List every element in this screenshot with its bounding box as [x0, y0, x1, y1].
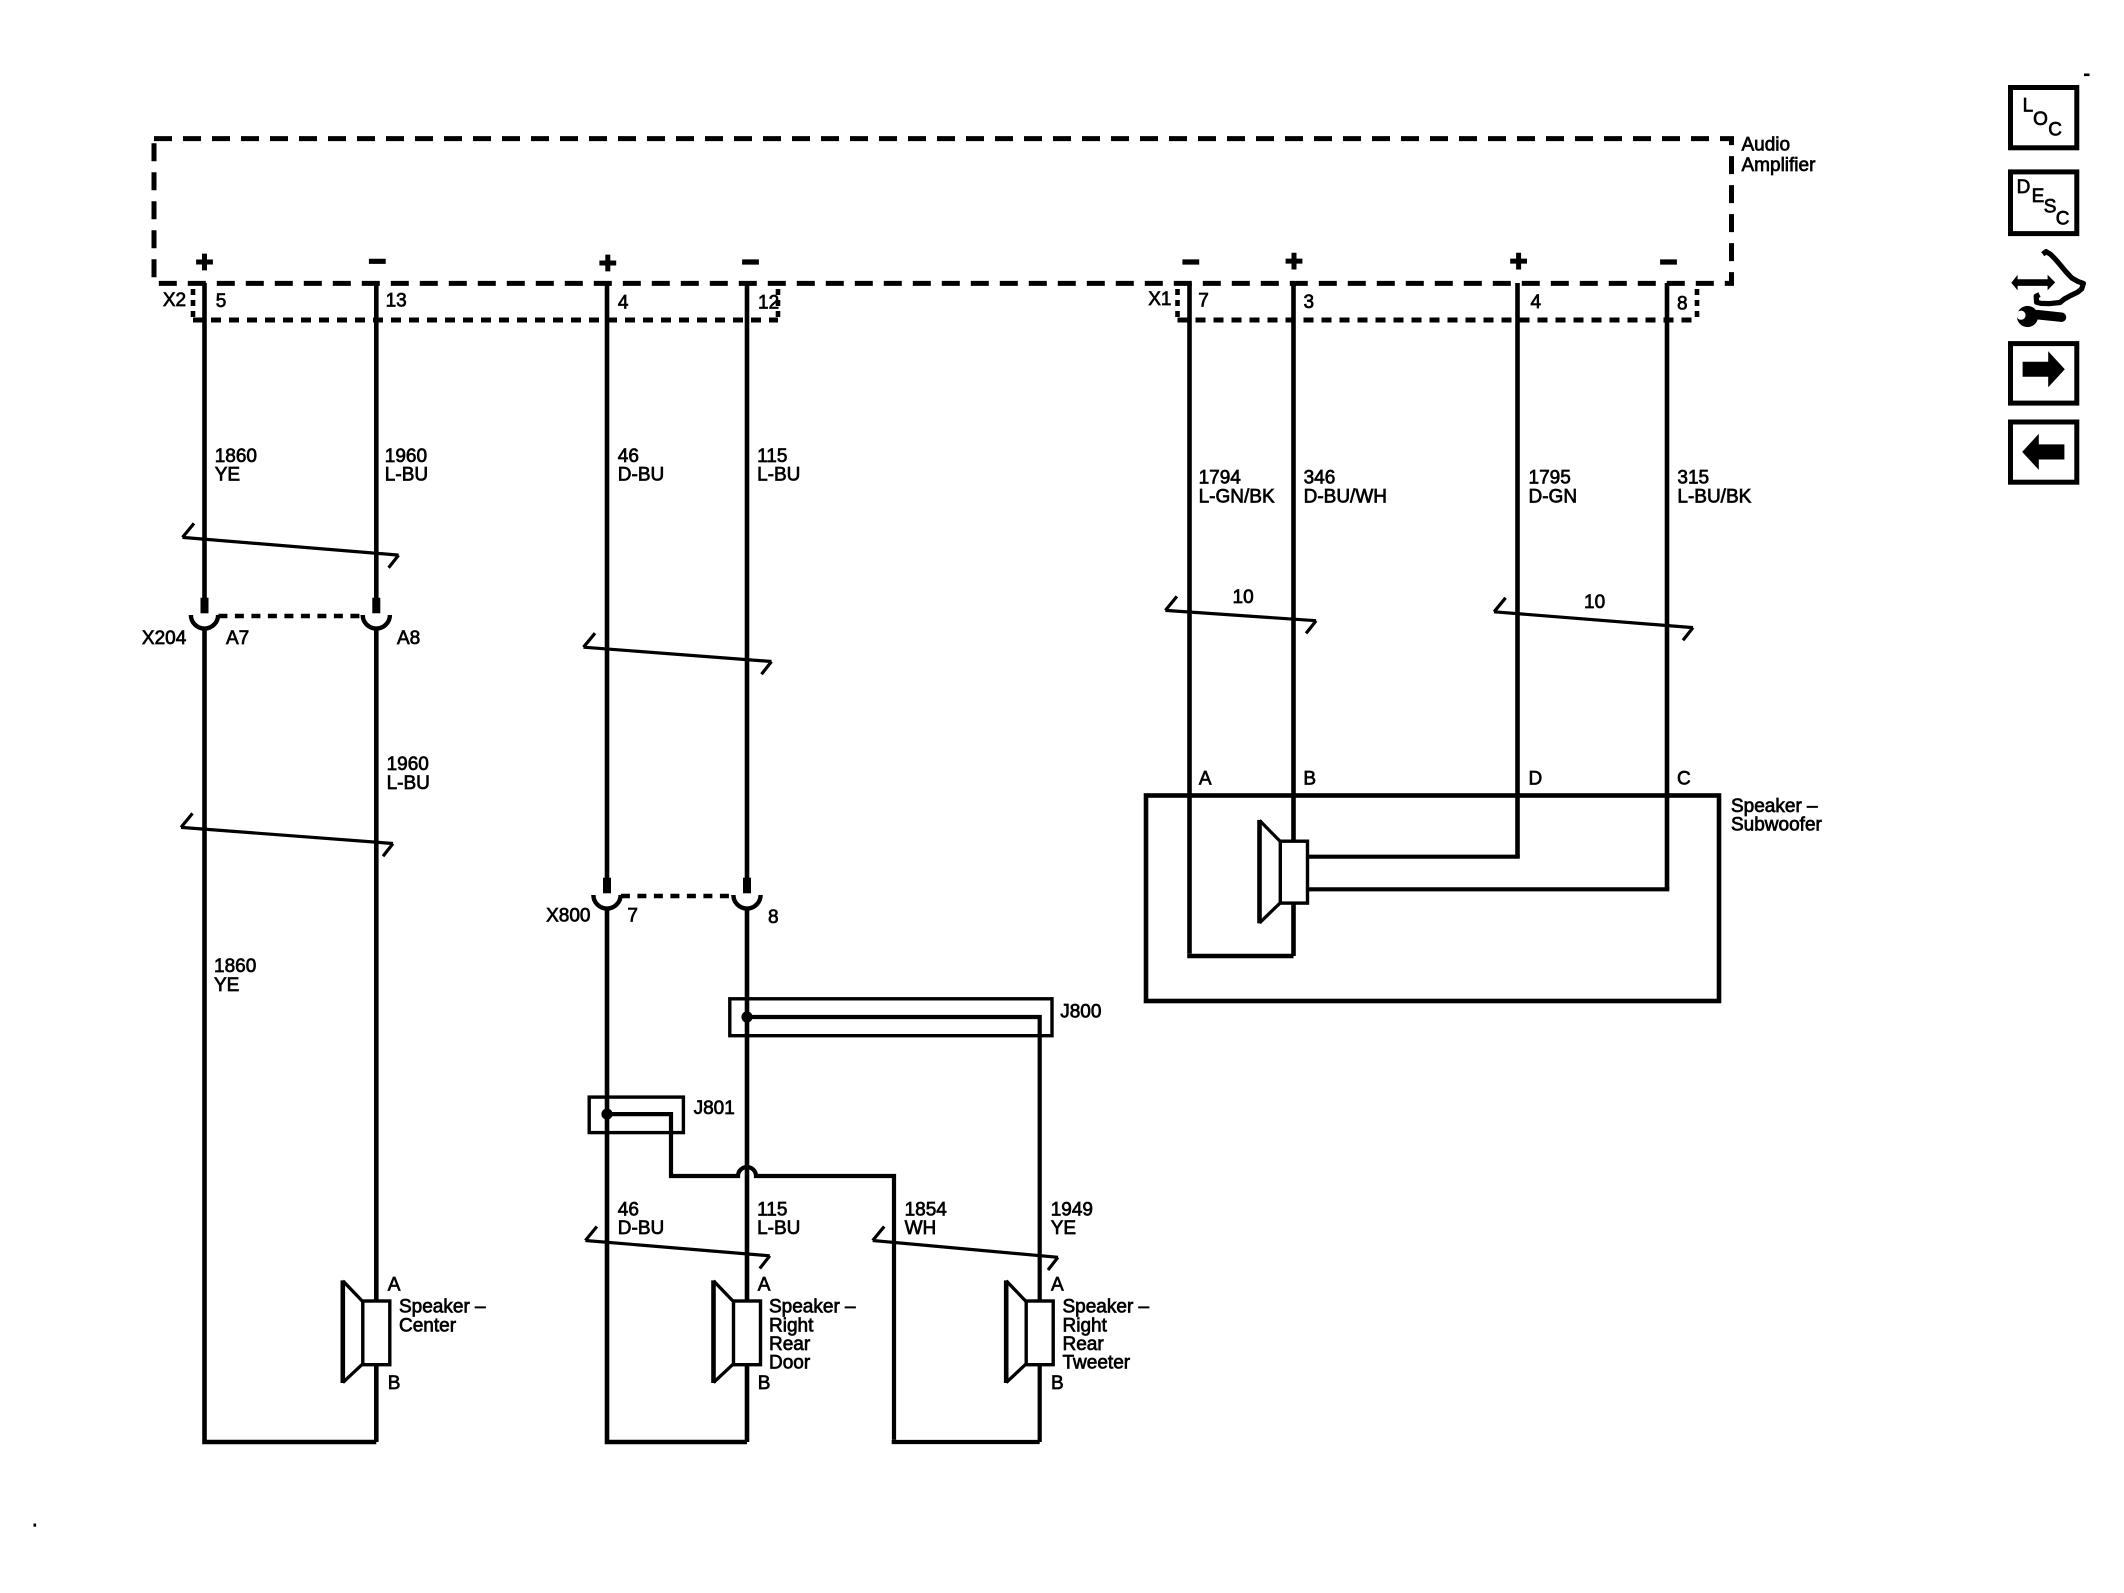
svg-text:4: 4: [618, 292, 629, 313]
Speaker-Center terminal A: [388, 1275, 401, 1296]
wire Subwoofer driver to terminal D: [1308, 855, 1520, 859]
wire 346 D-BU/WH (X1 pin3 to Subwoofer B / driver): [1291, 283, 1296, 956]
svg-text:X800: X800: [546, 906, 590, 927]
polarity - at X2 pin 13: [369, 259, 386, 264]
svg-text:L-BU: L-BU: [757, 1218, 800, 1239]
svg-text:J801: J801: [694, 1098, 735, 1119]
wire label 1960 L-BU: [385, 446, 428, 486]
wire Speaker-Right-Rear-Door B lead: [745, 1365, 750, 1442]
wire 115 L-BU (X2 pin12 to X800 pin8): [745, 283, 750, 893]
svg-text:8: 8: [1677, 294, 1688, 315]
X2 pin 12: [758, 292, 779, 313]
svg-text:7: 7: [627, 906, 638, 927]
polarity - at X1 pin 7: [1182, 259, 1199, 264]
option arrow across wires 46/115 (upper): [584, 633, 772, 674]
X2 pin 4: [618, 292, 629, 313]
svg-text:L-BU: L-BU: [385, 465, 428, 486]
svg-text:B: B: [1051, 1373, 1064, 1394]
icon button DESC: [2011, 172, 2077, 234]
icon button LOC: [2011, 88, 2077, 148]
svg-text:4: 4: [1531, 292, 1542, 313]
option arrow across wires 1860/1960 (upper): [183, 523, 399, 567]
Speaker-Right-Rear-Door terminal A: [758, 1275, 771, 1296]
page mark bottom left: [34, 1524, 37, 1527]
wire label 1794 L-GN/BK: [1199, 468, 1275, 508]
wire label 1960 L-BU (lower): [387, 754, 430, 794]
speaker Speaker-Right-Rear-Door symbol: [714, 1280, 761, 1383]
label Speaker-Right-Rear-Door: [769, 1297, 856, 1374]
svg-text:1794: 1794: [1199, 468, 1242, 489]
splice J801 box: [589, 1097, 683, 1133]
Audio Amplifier box (dashed): [154, 139, 1732, 284]
svg-text:1795: 1795: [1529, 468, 1571, 489]
connector X204 cavity A8: [363, 598, 390, 629]
label X800 pin 8: [768, 907, 779, 928]
svg-text:B: B: [388, 1373, 401, 1394]
svg-text:A: A: [758, 1275, 771, 1296]
connector X800 cavity 7: [593, 878, 620, 909]
svg-text:L: L: [2023, 96, 2034, 117]
connector X204 link (dashed): [218, 614, 362, 618]
Subwoofer terminal B: [1303, 769, 1316, 790]
splice J800 box: [730, 999, 1052, 1036]
svg-text:5: 5: [216, 291, 227, 312]
svg-text:L-GN/BK: L-GN/BK: [1199, 487, 1275, 508]
speaker Speaker-Subwoofer driver symbol: [1260, 820, 1308, 924]
label Speaker-Right-Rear-Tweeter: [1063, 1297, 1150, 1374]
Speaker-Right-Rear-Tweeter terminal B: [1051, 1373, 1064, 1394]
wire label 346 D-BU/WH: [1304, 468, 1387, 508]
svg-text:10: 10: [1584, 592, 1605, 613]
svg-text:O: O: [2033, 109, 2048, 130]
wire 1860 YE (X2 pin5 to X204 A7): [202, 283, 207, 613]
svg-text:7: 7: [1198, 290, 1209, 311]
wire label 115 L-BU: [757, 446, 800, 486]
polarity + at X1 pin 3: [1286, 253, 1303, 270]
wire label 315 L-BU/BK: [1677, 468, 1751, 508]
wire 46 D-BU (X2 pin4 to X800 pin7): [605, 283, 610, 893]
svg-text:D: D: [1529, 769, 1543, 790]
svg-text:315: 315: [1677, 468, 1709, 489]
label A7: [226, 628, 249, 649]
Speaker-Right-Rear-Door terminal B: [758, 1373, 771, 1394]
option arrow across wires 1794/346 with size 10: [1165, 587, 1316, 633]
wire 46 D-BU (X800 pin7 through J801 to Speaker-Right-Rear-Door B): [605, 909, 747, 1442]
wire 1949 YE branch (J800 to Speaker-Right-Rear-Tweeter A): [747, 1017, 1040, 1301]
svg-text:C: C: [2048, 120, 2062, 141]
label J801: [694, 1098, 735, 1119]
wire 1960 L-BU (X204 A8 to Speaker-Center A): [374, 629, 379, 1301]
label X800 pin 7: [627, 906, 638, 927]
X2 pin 5: [216, 291, 227, 312]
Speaker-Right-Rear-Tweeter terminal A: [1051, 1275, 1064, 1296]
X1 pin 8: [1677, 294, 1688, 315]
wire label 1854 WH: [905, 1199, 948, 1239]
wire 1960 L-BU (X2 pin13 to X204 A8): [374, 283, 379, 613]
svg-text:J800: J800: [1060, 1001, 1101, 1022]
svg-text:A: A: [1051, 1275, 1064, 1296]
svg-text:8: 8: [768, 907, 779, 928]
wire Speaker-Center B lead: [374, 1365, 379, 1442]
speaker Speaker-Center symbol: [343, 1280, 390, 1383]
svg-text:L-BU/BK: L-BU/BK: [1677, 487, 1751, 508]
svg-text:D-GN: D-GN: [1529, 487, 1578, 508]
subwoofer return link A-B: [1187, 954, 1293, 959]
wire Subwoofer driver to terminal C: [1308, 887, 1670, 891]
icon harness routing (double arrow, outline, wrench): [2011, 252, 2083, 328]
svg-text:E: E: [2032, 186, 2045, 207]
svg-text:S: S: [2044, 197, 2057, 218]
svg-text:10: 10: [1233, 587, 1254, 608]
svg-text:D-BU: D-BU: [618, 465, 664, 486]
label A8: [397, 628, 420, 649]
option arrow across wires 1795/315 with size 10: [1494, 592, 1693, 640]
X2 pin 13: [386, 291, 407, 312]
wire 115 L-BU (X800 pin8 through J800 to Speaker-Right-Rear-Door A): [745, 909, 750, 1301]
wire 1795 D-GN (X1 pin4 to Subwoofer D): [1515, 283, 1520, 857]
wire label 1795 D-GN: [1529, 468, 1578, 508]
svg-text:B: B: [758, 1373, 771, 1394]
label Audio Amplifier: [1742, 134, 1817, 176]
connector X2 strip: [163, 289, 778, 320]
wire label 46 D-BU (lower): [618, 1199, 664, 1239]
polarity + at X2 pin 5: [196, 254, 213, 271]
polarity + at X2 pin 4: [599, 255, 616, 272]
svg-text:3: 3: [1304, 292, 1315, 313]
X1 pin 7: [1198, 290, 1209, 311]
label X800: [546, 906, 590, 927]
svg-text:A8: A8: [397, 628, 420, 649]
svg-text:D: D: [2017, 177, 2031, 198]
svg-text:WH: WH: [905, 1218, 937, 1239]
svg-text:L-BU: L-BU: [757, 465, 800, 486]
polarity - at X1 pin 8: [1660, 259, 1677, 264]
svg-text:YE: YE: [215, 465, 240, 486]
icon button next (right arrow): [2011, 344, 2077, 404]
wire 1860 YE (X204 A7 to Speaker-Center B): [202, 629, 376, 1442]
svg-text:Subwoofer: Subwoofer: [1731, 815, 1823, 836]
X1 pin 4: [1531, 292, 1542, 313]
option arrow across wires 1854/1949 (bottom): [873, 1227, 1058, 1271]
Subwoofer terminal D: [1529, 769, 1543, 790]
svg-text:Center: Center: [399, 1315, 457, 1336]
svg-text:D-BU: D-BU: [618, 1218, 664, 1239]
splice J800 junction dot: [741, 1011, 752, 1022]
wire label 115 L-BU (lower): [757, 1199, 800, 1239]
wire label 1860 YE (lower): [214, 956, 256, 996]
label X204: [142, 628, 187, 649]
svg-text:D-BU/WH: D-BU/WH: [1304, 487, 1387, 508]
svg-text:Door: Door: [769, 1353, 811, 1374]
Subwoofer terminal C: [1677, 769, 1691, 790]
connector X800 link (dashed): [621, 894, 733, 898]
wire label 1949 YE: [1051, 1199, 1093, 1239]
svg-text:C: C: [1677, 769, 1691, 790]
option arrow across wires 1860/1960 (lower): [181, 813, 393, 856]
polarity - at X2 pin 12: [742, 259, 759, 264]
wire 1949 YE tweeter B lead: [1038, 1365, 1042, 1442]
option arrow across wires 46/115 (bottom): [585, 1227, 769, 1269]
svg-text:346: 346: [1304, 468, 1336, 489]
svg-text:YE: YE: [1051, 1218, 1076, 1239]
wire label 46 D-BU: [618, 446, 664, 486]
svg-text:Amplifier: Amplifier: [1742, 155, 1817, 176]
svg-text:B: B: [1303, 769, 1316, 790]
speaker Speaker-Right-Rear-Tweeter symbol: [1006, 1280, 1053, 1383]
svg-text:A: A: [388, 1275, 401, 1296]
speaker Speaker-Subwoofer box: [1146, 796, 1719, 1002]
svg-text:X1: X1: [1148, 289, 1171, 310]
wire 1854 WH branch (J801 to Speaker-Right-Rear-Tweeter B) with hop over 115 wire: [607, 1114, 1040, 1442]
page mark top right: [2084, 74, 2090, 77]
svg-text:Tweeter: Tweeter: [1063, 1353, 1131, 1374]
svg-text:Audio: Audio: [1742, 134, 1791, 155]
icon button back (left arrow): [2011, 422, 2077, 482]
svg-text:YE: YE: [214, 975, 239, 996]
svg-text:12: 12: [758, 292, 779, 313]
connector X1 strip: [1148, 289, 1697, 320]
Subwoofer terminal A: [1199, 769, 1212, 790]
X1 pin 3: [1304, 292, 1315, 313]
polarity + at X1 pin 4: [1510, 253, 1527, 270]
svg-text:A7: A7: [226, 628, 249, 649]
Speaker-Center terminal B: [388, 1373, 401, 1394]
svg-text:C: C: [2056, 209, 2070, 230]
connector X204 cavity A7: [191, 598, 218, 629]
svg-text:L-BU: L-BU: [387, 773, 430, 794]
splice J801 junction dot: [601, 1109, 612, 1120]
svg-text:X2: X2: [163, 290, 186, 311]
label J800: [1060, 1001, 1101, 1022]
svg-text:13: 13: [386, 291, 407, 312]
svg-text:X204: X204: [142, 628, 187, 649]
svg-text:A: A: [1199, 769, 1212, 790]
wire 315 L-BU/BK (X1 pin8 to Subwoofer C): [1665, 283, 1670, 889]
wire 1794 L-GN/BK (X1 pin7 to Subwoofer A): [1187, 283, 1192, 954]
label Speaker-Subwoofer: [1731, 796, 1823, 836]
label Speaker-Center: [399, 1297, 486, 1337]
wire label 1860 YE: [215, 446, 257, 486]
connector X800 cavity 8: [733, 878, 760, 909]
